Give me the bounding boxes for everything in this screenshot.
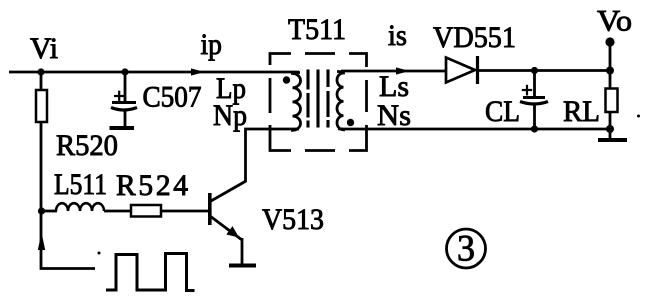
wire: diode cathode to output node — [479, 69, 611, 72]
current arrow ip — [191, 68, 205, 75]
svg-text:is: is — [388, 20, 407, 52]
svg-text:C507: C507 — [143, 82, 202, 114]
transformer T511 dashed boundary box — [270, 54, 367, 151]
junction at Vi / R520 top — [37, 68, 44, 75]
svg-text:L511: L511 — [54, 169, 107, 201]
ground below V513 emitter — [229, 264, 256, 268]
svg-text:T511: T511 — [288, 14, 346, 46]
junction at CL bottom — [531, 125, 538, 132]
junction at RL top — [606, 67, 614, 75]
svg-text:V513: V513 — [262, 204, 324, 236]
wire: L511 to R524 — [104, 210, 131, 213]
drive waveform (square wave) — [106, 254, 195, 291]
junction at C507 top — [121, 68, 128, 75]
svg-text:Vo: Vo — [597, 6, 632, 38]
current arrow is — [396, 67, 410, 74]
junction at CL top — [531, 67, 538, 74]
transformer T511 primary winding (Lp/Np), bumps toward core — [293, 73, 301, 131]
arrow up on feedback branch — [38, 233, 45, 251]
polarity dot secondary — [347, 119, 354, 126]
svg-text:R524: R524 — [116, 170, 188, 202]
wire: secondary top to diode anode — [341, 70, 447, 73]
resistor R524 — [131, 205, 161, 217]
capacitor C507 (polarized) — [111, 72, 137, 127]
figure number 3 (circled) — [447, 229, 486, 270]
wire: primary bottom to V513 collector — [246, 129, 298, 182]
wire: top input rail from Vi to T511 primary — [9, 71, 299, 74]
svg-text:Ns: Ns — [377, 100, 411, 132]
inductor L511 — [56, 203, 104, 211]
svg-text:VD551: VD551 — [433, 22, 516, 54]
wire: Vo terminal to output rail — [609, 44, 612, 71]
ground bar below C507 — [110, 126, 135, 130]
polarity dot primary — [283, 76, 290, 83]
wire: R524 to V513 base — [161, 210, 209, 213]
wire: base rail junction to L511 — [41, 210, 57, 213]
transistor V513 — [210, 181, 246, 264]
svg-text:CL: CL — [485, 96, 520, 128]
node Vo terminal — [605, 37, 614, 46]
svg-text:Vi: Vi — [30, 33, 58, 65]
wire: bottom rail from Ns to RL — [341, 128, 611, 131]
junction at RL bottom — [606, 125, 614, 133]
svg-text:Np: Np — [213, 100, 247, 132]
ground below RL — [598, 129, 627, 140]
svg-text:Ls: Ls — [379, 71, 409, 103]
resistor R520 — [36, 72, 47, 122]
svg-text:ip: ip — [201, 29, 223, 61]
svg-text:RL: RL — [563, 96, 600, 128]
wire: feedback branch down from base junction — [41, 211, 95, 269]
capacitor CL (polarized) — [520, 71, 548, 130]
transformer core (3 bars) — [308, 70, 328, 128]
resistor RL — [606, 71, 618, 130]
transformer T511 secondary winding (Ls/Ns), bumps toward core — [337, 72, 344, 130]
junction at base rail / R520 — [38, 207, 45, 214]
diode VD551 — [446, 56, 478, 84]
svg-text:3: 3 — [457, 229, 475, 270]
svg-text:R520: R520 — [56, 130, 118, 162]
wire: R520 bottom to base-rail junction — [40, 122, 43, 211]
